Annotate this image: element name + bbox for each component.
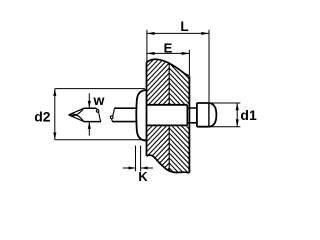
d1 top arrow [236,103,239,110]
K arrow shafts [123,167,153,169]
svg-text:w: w [93,92,105,108]
ext line right E [188,50,190,75]
plate right face [188,76,190,173]
mandrel neck [187,108,197,123]
stem break curl piece1 right end [96,110,99,113]
plates group [140,31,191,214]
d1 dim line [236,103,238,127]
d2 dim line [54,89,56,140]
stem break curl left piece2 [110,116,113,119]
dimensions [55,30,241,172]
plate top break line [147,59,190,76]
plate joint line [168,64,170,171]
w arrow shafts [88,93,90,135]
ext line right L [208,30,210,103]
K ext lines [136,146,141,172]
arrowheads [53,32,239,170]
mandrel head (bulb) [197,103,209,127]
rivet body through plates [147,105,188,126]
d2 ext top [55,88,145,90]
dim line L [147,32,209,34]
w top arrow [88,101,91,108]
hatching right plate [168,32,191,201]
d2 ext bottom [55,139,146,141]
mandrel stem right piece [112,108,137,121]
L left arrow [147,32,155,35]
rivet [69,90,216,141]
K right arrow [141,166,148,169]
svg-text:L: L [180,19,188,34]
d1 bottom arrow [236,119,239,126]
ext line left (L/E) [146,30,148,62]
mandrel head dome [209,103,217,127]
mandrel tip piece: point (two petal faces) [69,108,84,121]
plate bottom break line [147,155,190,173]
svg-text:K: K [138,169,148,184]
w bottom arrow [88,122,91,129]
svg-text:d1: d1 [240,107,257,123]
E right arrow [182,52,190,55]
L right arrow [201,32,209,35]
E left arrow [147,52,155,55]
plate left face [146,62,148,156]
mandrel head tangent line [208,103,210,127]
hatching left plate [140,31,171,214]
svg-text:d2: d2 [34,108,51,124]
body end face [186,105,188,126]
dim line E [147,52,190,54]
d1 ext lines [210,103,241,127]
K left arrow [129,166,136,169]
rivet head (set head) [136,90,146,141]
d2 bottom arrow [53,133,56,140]
mandrel tip piece: stem [84,108,101,121]
svg-text:E: E [164,40,173,55]
d2 top arrow [53,89,56,96]
